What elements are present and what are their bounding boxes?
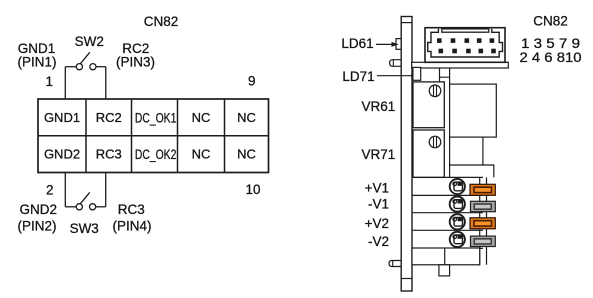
svg-text:LD61: LD61 — [341, 36, 373, 51]
svg-text:(PIN3): (PIN3) — [116, 55, 155, 70]
arrow LD61 — [376, 43, 394, 45]
connector inner cavity wall — [428, 29, 503, 57]
panel bottom cap line — [401, 278, 412, 280]
terminal tab +V2 (orange) — [470, 218, 495, 229]
svg-text:10: 10 — [245, 182, 260, 197]
terminal screw -V2 — [450, 232, 465, 247]
svg-text:+V1: +V1 — [365, 180, 389, 195]
potentiometer VR61 screw — [429, 85, 441, 97]
svg-text:2 4 6 810: 2 4 6 810 — [520, 50, 582, 65]
svg-text:VR61: VR61 — [362, 99, 396, 114]
svg-text:LD71: LD71 — [342, 69, 374, 84]
svg-text:GND1: GND1 — [44, 110, 80, 125]
terminal screw -V1 — [450, 197, 465, 212]
potentiometer VR61 box — [413, 82, 444, 128]
svg-text:-V2: -V2 — [368, 234, 389, 249]
wire SW2 left to table (GND1) — [64, 67, 66, 99]
panel top cap line — [401, 22, 412, 24]
svg-text:VR71: VR71 — [362, 147, 396, 162]
svg-text:NC: NC — [237, 147, 256, 162]
svg-text:GND2: GND2 — [44, 147, 80, 162]
bottom notch — [439, 265, 450, 276]
svg-text:9: 9 — [248, 74, 256, 89]
terminal tab -V2 (gray) — [471, 236, 496, 246]
table column dividers — [86, 99, 225, 173]
switch SW2 — [65, 52, 106, 69]
svg-text:NC: NC — [192, 147, 211, 162]
body left edge — [449, 68, 451, 177]
terminal tab -V1 (gray) — [471, 201, 496, 211]
svg-text:SW3: SW3 — [70, 221, 99, 236]
svg-text:CN82: CN82 — [533, 14, 568, 29]
connector top polarization slot — [442, 29, 489, 32]
svg-text:RC2: RC2 — [96, 110, 122, 125]
wire SW2 right to table (RC2) — [105, 67, 107, 99]
shoulder line — [440, 76, 450, 78]
svg-text:(PIN4): (PIN4) — [112, 219, 151, 234]
terminal housing top — [450, 165, 494, 177]
table row divider — [38, 135, 269, 137]
leg under bar — [439, 68, 441, 82]
potentiometer VR71 box — [413, 130, 444, 177]
front panel — [401, 17, 412, 292]
svg-text:-V1: -V1 — [368, 196, 389, 211]
mounting peg top — [390, 60, 402, 67]
connector pins row 2 (2,4,6,8,10) — [439, 49, 496, 54]
LED LD61 (on front panel) — [396, 39, 401, 50]
svg-text:(PIN2): (PIN2) — [17, 219, 56, 234]
svg-text:CN82: CN82 — [144, 14, 179, 29]
terminal row separators — [412, 177, 483, 248]
right strip behind tabs — [479, 177, 481, 264]
svg-text:(PIN1): (PIN1) — [17, 55, 56, 70]
terminal screw +V1 — [450, 179, 465, 194]
LED LD71 (behind panel) — [413, 67, 421, 80]
connector pins row 1 (1,3,5,7,9) — [437, 38, 494, 43]
svg-text:1 3 5 7 9: 1 3 5 7 9 — [521, 36, 580, 51]
svg-text:+V2: +V2 — [365, 216, 389, 231]
svg-text:RC3: RC3 — [96, 147, 122, 162]
mounting peg bottom — [389, 261, 401, 267]
terminal screw +V2 — [450, 214, 465, 229]
svg-text:1: 1 — [46, 74, 54, 89]
terminal tab +V1 (orange) — [470, 184, 495, 195]
svg-text:SW2: SW2 — [75, 34, 104, 49]
svg-text:2: 2 — [46, 183, 54, 198]
svg-text:RC3: RC3 — [118, 202, 145, 217]
arrow LD71 — [377, 75, 413, 77]
under-band below terminals — [412, 248, 480, 265]
wire table (GND2) to SW3 left — [64, 173, 66, 207]
svg-text:GND2: GND2 — [20, 202, 58, 217]
wire table (RC3) to SW3 right — [105, 173, 107, 207]
main body upper box — [450, 84, 497, 137]
svg-text:NC: NC — [192, 110, 211, 125]
potentiometer VR71 screw — [429, 136, 441, 148]
table CN82 outer frame — [38, 99, 269, 173]
switch SW3 — [65, 192, 105, 210]
svg-text:DC_OK2: DC_OK2 — [135, 147, 177, 162]
top bar (PCB edge) — [412, 62, 509, 68]
svg-text:NC: NC — [237, 110, 256, 125]
body step line — [482, 137, 484, 165]
svg-text:DC_OK1: DC_OK1 — [135, 110, 177, 125]
connector CN82 body — [425, 28, 505, 63]
